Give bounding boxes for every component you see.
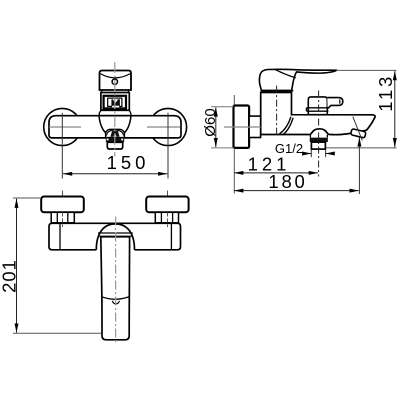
svg-text:Ø60: Ø60: [202, 108, 219, 136]
svg-text:150: 150: [107, 152, 150, 173]
svg-text:180: 180: [268, 171, 307, 192]
svg-text:201: 201: [0, 259, 19, 293]
svg-text:113: 113: [375, 74, 396, 112]
